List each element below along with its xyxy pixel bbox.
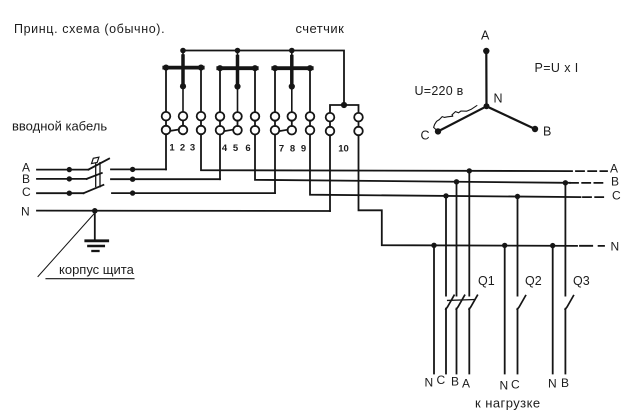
svg-text:N: N	[425, 376, 434, 390]
svg-text:U=220 в: U=220 в	[415, 84, 464, 98]
coil 1 end dot right	[198, 65, 204, 71]
wire terminal 9 down, C bus out	[310, 135, 581, 198]
svg-text:9: 9	[301, 144, 306, 155]
branch to terminals 10	[330, 105, 359, 113]
B bus to dash	[565, 182, 570, 184]
wire Q3 B drop	[564, 183, 566, 296]
svg-text:4: 4	[222, 143, 228, 154]
terminal 6	[251, 112, 260, 121]
bus junction dot at terminal 10	[341, 102, 347, 108]
svg-text:B: B	[451, 375, 459, 389]
jumper terminals 1-2	[170, 130, 179, 131]
meter element 2 voltage coil	[237, 51, 239, 112]
svg-text:1: 1	[169, 143, 175, 154]
svg-text:5: 5	[233, 143, 239, 154]
terminal 9	[306, 112, 315, 121]
leader line to "корпус щита"	[38, 214, 94, 277]
svg-text:10: 10	[338, 144, 349, 155]
switch QS blade A	[88, 159, 109, 170]
wire terminal 4 down to phase B	[219, 135, 221, 180]
Q1 C blade	[446, 295, 454, 309]
svg-text:B: B	[22, 172, 30, 186]
svg-text:3: 3	[190, 143, 195, 154]
svg-text:N: N	[548, 377, 557, 391]
meter element 3 voltage coil	[291, 51, 293, 112]
star node B dot	[532, 126, 538, 132]
junction dot Q2 neutral	[502, 243, 507, 248]
coil 3 end dot right	[307, 65, 313, 71]
svg-text:B: B	[561, 376, 569, 390]
svg-text:6: 6	[245, 143, 250, 154]
dashed B bus end	[570, 182, 603, 184]
phasor star: branch N to B	[487, 106, 536, 129]
coil 2 end dot right	[252, 65, 258, 71]
junction dot Q1 phase C	[443, 193, 448, 198]
wire Q1 C drop	[445, 196, 447, 296]
wire phase B input	[37, 178, 87, 180]
switch QS blade B	[87, 173, 102, 179]
dashed A bus end	[576, 170, 607, 172]
terminal 7	[271, 112, 280, 121]
svg-text:Q2: Q2	[525, 274, 542, 288]
svg-text:Принц. схема (обычно).: Принц. схема (обычно).	[14, 22, 165, 36]
bus dot over element 1	[180, 48, 186, 54]
meter element 3 current coil	[273, 66, 311, 70]
junction dot B mid	[130, 177, 135, 182]
wire Q1 C lower	[445, 309, 447, 374]
wire Q1 B drop	[456, 182, 458, 296]
svg-text:C: C	[612, 189, 621, 203]
terminal 1	[162, 112, 171, 121]
svg-text:A: A	[481, 29, 490, 43]
bus dot over element 3	[289, 48, 295, 54]
junction dot Q1 phase A	[467, 168, 472, 173]
junction dot B input	[67, 176, 72, 181]
wire Q1 N	[433, 245, 435, 373]
svg-text:Q3: Q3	[573, 274, 590, 288]
bus dot over element 2	[235, 48, 241, 54]
underline of "корпус щита"	[46, 278, 134, 280]
star node N dot	[484, 103, 490, 109]
star node A dot	[483, 48, 489, 54]
Q1 A blade	[469, 295, 477, 309]
squiggle arrow along C branch	[434, 106, 477, 130]
voltage coil 3 tap dot	[289, 83, 295, 89]
wire Q3 N	[552, 246, 554, 374]
terminal 5	[233, 112, 242, 121]
wire terminal 1 down to phase A	[165, 134, 167, 169]
wire phase A input	[37, 169, 88, 171]
switch QS linkage bar right	[99, 163, 101, 187]
terminal 4	[216, 112, 225, 121]
Q3 B blade	[565, 296, 573, 310]
coil 2 end dot left	[217, 65, 223, 71]
svg-text:8: 8	[290, 144, 295, 155]
wire terminal 10 right down and to load N	[359, 135, 578, 246]
ground bar 3	[92, 250, 98, 252]
switch QS blade C	[84, 185, 104, 193]
svg-text:N: N	[494, 92, 503, 106]
junction dot C mid	[130, 190, 135, 195]
wire coil2 right to terminal 6	[254, 68, 256, 111]
wire coil3 left to terminal 7	[274, 68, 276, 111]
junction dot A input	[67, 167, 72, 172]
meter element 2 current coil	[218, 66, 256, 70]
switch QS handle	[92, 157, 99, 163]
meter element 1 current coil	[164, 66, 202, 70]
terminal 10 left	[326, 113, 335, 122]
svg-text:счетчик: счетчик	[296, 21, 345, 36]
star node C dot	[435, 128, 441, 134]
dashed C bus end	[583, 196, 604, 198]
Q2 C blade	[517, 296, 525, 310]
wire Q1 B lower	[456, 309, 458, 374]
wire Q2 C lower	[517, 309, 519, 374]
junction dot N ground	[92, 208, 98, 214]
junction dot A mid	[130, 167, 135, 172]
junction dot Q3 neutral	[550, 243, 555, 248]
svg-text:2: 2	[180, 143, 185, 154]
wire phase C to terminal 7	[112, 192, 275, 194]
svg-text:вводной кабель: вводной кабель	[12, 119, 107, 134]
terminal 8	[288, 112, 297, 121]
ground bar 1	[86, 239, 108, 242]
phasor star: branch N to C	[438, 106, 487, 131]
svg-text:N: N	[611, 239, 620, 253]
junction dot Q2 phase C	[515, 194, 520, 199]
meter element 1 voltage coil	[182, 51, 184, 112]
svg-text:C: C	[511, 378, 520, 392]
Q1 B blade	[456, 295, 464, 309]
wire coil2 left to terminal 4	[219, 68, 221, 111]
svg-text:A: A	[610, 162, 618, 176]
junction dot C input	[67, 191, 72, 196]
svg-text:C: C	[22, 185, 31, 199]
svg-text:к нагрузке: к нагрузке	[475, 396, 541, 411]
voltage coil 2 tap dot	[234, 83, 240, 89]
wire Q2 C drop	[517, 197, 519, 296]
svg-text:7: 7	[279, 144, 284, 155]
svg-text:P=U x I: P=U x I	[535, 61, 579, 75]
svg-text:C: C	[421, 129, 430, 143]
wire coil1 left to terminal 1	[165, 68, 167, 112]
jumper terminals 4-5	[224, 130, 233, 131]
terminal 3	[197, 112, 206, 121]
wire coil1 right to terminal 3	[200, 68, 202, 112]
svg-text:B: B	[543, 125, 551, 139]
phasor star: branch N to A	[485, 51, 487, 106]
wire phase B to terminal 4	[111, 178, 220, 180]
wire coil3 right to terminal 9	[309, 68, 311, 111]
wire Q1 A drop	[468, 171, 470, 296]
jumper terminals 7-8	[279, 130, 288, 131]
junction dot Q1 neutral	[431, 243, 436, 248]
svg-text:A: A	[462, 377, 470, 391]
wire Q3 B lower	[564, 309, 566, 374]
svg-text:N: N	[500, 379, 509, 393]
wire terminal 7 down to phase C	[274, 135, 276, 194]
svg-text:корпус щита: корпус щита	[59, 262, 135, 277]
voltage coil 1 tap dot	[180, 83, 186, 89]
coil 1 end dot left	[163, 65, 169, 71]
dashed N bus end	[580, 245, 604, 247]
meter voltage bus (top)	[183, 51, 344, 106]
junction dot Q1 phase B	[454, 179, 459, 184]
svg-text:N: N	[21, 205, 30, 219]
svg-text:Q1: Q1	[478, 274, 495, 288]
switch QS linkage bar left	[95, 164, 97, 187]
svg-text:C: C	[437, 373, 446, 387]
wire phase C input	[37, 192, 84, 194]
ground bar 2	[88, 245, 103, 248]
wire terminal 10 left down to N	[329, 135, 331, 211]
wire terminal 6 down, B bus out	[255, 135, 565, 183]
svg-text:B: B	[611, 175, 619, 189]
wire terminal 3 down, A bus out	[201, 134, 572, 171]
wire Q1 A lower	[468, 309, 470, 374]
wire neutral N	[37, 210, 330, 212]
ground conductor	[94, 211, 96, 241]
wire phase A to terminal 1	[111, 168, 166, 170]
coil 3 end dot left	[272, 65, 278, 71]
junction dot Q3 phase B	[563, 180, 568, 185]
wire Q2 N	[504, 245, 506, 373]
terminal 10 right	[354, 113, 363, 122]
Q1 gang bar	[448, 299, 475, 302]
terminal 2	[179, 112, 188, 121]
